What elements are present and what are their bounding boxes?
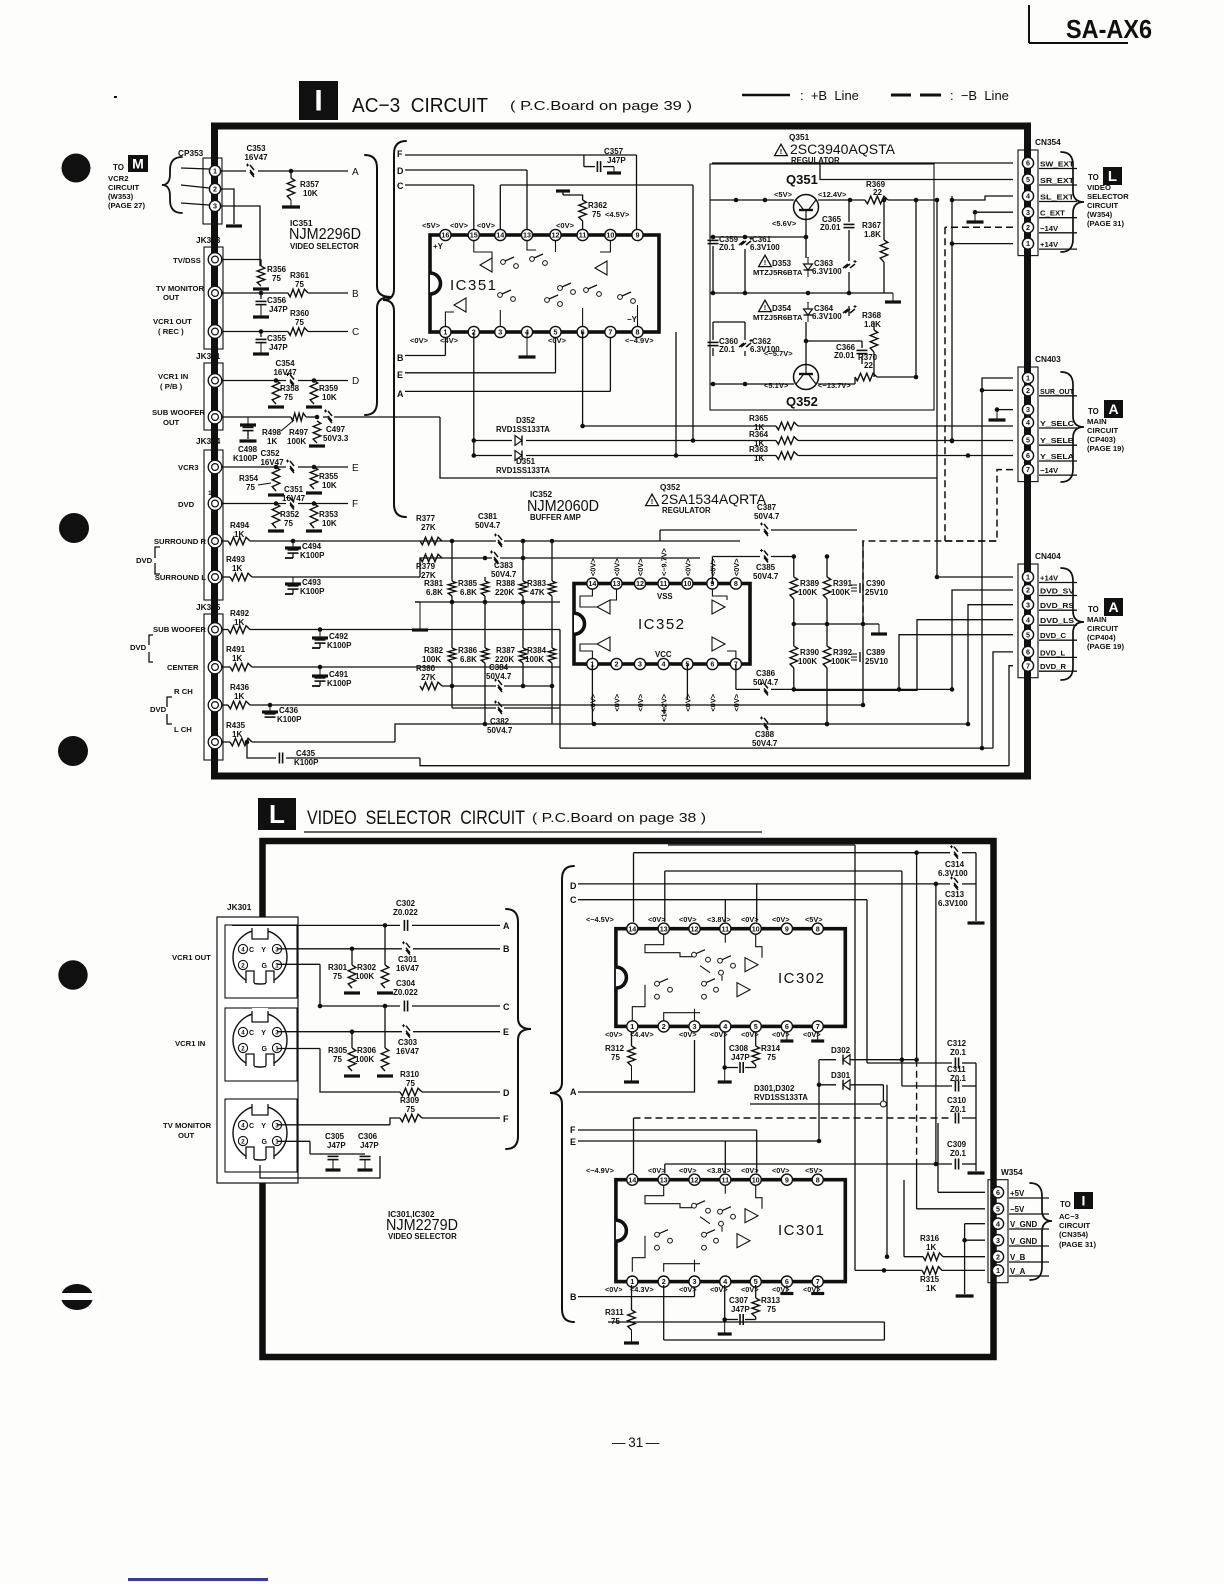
svg-text:F: F [503,1114,509,1124]
svg-text:R367: R367 [862,221,882,230]
svg-text:A: A [570,1087,577,1097]
resistor R305 [348,1048,356,1071]
ground [817,1032,819,1041]
IC352 internals [597,600,610,614]
svg-text:R492: R492 [230,609,250,618]
svg-text:9: 9 [636,231,640,240]
wire A row [260,925,297,930]
svg-text:F: F [570,1125,576,1135]
ground [892,293,894,302]
svg-text:2: 2 [213,185,217,194]
binding hole [58,960,87,989]
svg-text:<−4.9V>: <−4.9V> [586,1166,614,1175]
svg-text:<0V>: <0V> [741,1166,759,1175]
svg-text:Y_SELB: Y_SELB [1040,436,1075,445]
wire pin outputs [591,664,593,724]
svg-text:(CN354): (CN354) [1059,1230,1088,1239]
wire C388 row [594,723,760,725]
svg-text:7: 7 [1026,465,1030,474]
resistor R360 [288,328,308,336]
svg-text:10K: 10K [322,481,337,490]
ground [878,624,880,634]
svg-text:Q352: Q352 [660,483,681,492]
svg-text:R380: R380 [416,664,436,673]
wire SW_EXT [712,162,1013,164]
svg-text:1: 1 [1026,374,1030,383]
svg-text:<5V>: <5V> [805,915,823,924]
resistor R491 [222,666,230,668]
svg-text:12: 12 [552,231,560,240]
svg-text:C: C [249,947,254,954]
svg-text:Y: Y [261,1030,266,1037]
svg-text:C435: C435 [296,749,316,758]
wire pin2 down [473,332,475,441]
svg-text:3: 3 [498,328,502,337]
wire rail2 [710,236,806,238]
wire C_EXT [975,211,1013,213]
svg-text:2: 2 [662,1277,666,1286]
svg-text:SUB WOOFER: SUB WOOFER [153,625,206,634]
svg-text:100K: 100K [287,437,306,446]
svg-text:R365: R365 [749,414,769,423]
svg-text:11: 11 [721,1175,729,1184]
svg-text:JK301: JK301 [227,903,252,912]
svg-text:+14V: +14V [1040,574,1059,583]
capacitor C362 [739,339,753,347]
op-amp U IC351 body [430,235,659,332]
ground [309,444,325,447]
svg-text:27K: 27K [421,673,436,682]
svg-text:2: 2 [241,1139,245,1146]
resistor R492 [222,629,228,631]
svg-text:14: 14 [628,924,636,933]
svg-text:R314: R314 [761,1044,781,1053]
svg-text:<4.4V>: <4.4V> [630,1030,654,1039]
svg-text:2: 2 [241,1046,245,1053]
svg-text:TV MONITOR: TV MONITOR [163,1121,212,1130]
svg-text:4: 4 [1026,615,1030,624]
svg-text:(W353): (W353) [108,192,134,201]
svg-text:VCR2: VCR2 [108,174,129,183]
svg-text:75: 75 [611,1053,620,1062]
svg-text:14: 14 [496,231,504,240]
svg-text:R384: R384 [527,646,547,655]
resistor R306 [381,1048,389,1071]
svg-text:1K: 1K [926,1243,936,1252]
svg-text:SUR_OUT: SUR_OUT [1040,387,1074,396]
svg-text:TV/DSS: TV/DSS [173,256,201,265]
svg-text:K100P: K100P [327,641,352,650]
wire A line [405,390,610,392]
svg-text:F: F [397,149,403,159]
svg-text:Y_SELA: Y_SELA [1040,452,1075,461]
capacitor C355 [260,332,262,338]
wire D to IC302 [578,883,950,885]
svg-text:75: 75 [272,274,281,283]
svg-text:<0V>: <0V> [679,1166,697,1175]
svg-text:75: 75 [767,1053,776,1062]
wire D row [277,1048,320,1050]
svg-text:MTZJ5R6BTA: MTZJ5R6BTA [753,313,803,322]
svg-text:D351: D351 [516,457,536,466]
svg-text:<−4.9V>: <−4.9V> [625,336,654,345]
svg-text:DVD_C: DVD_C [1040,631,1067,640]
svg-text:R355: R355 [319,472,339,481]
ground [268,405,284,408]
svg-text:<0V>: <0V> [679,915,697,924]
svg-text:(PAGE 31): (PAGE 31) [1087,219,1124,228]
ground [306,529,322,532]
svg-text:16V47: 16V47 [396,964,420,973]
ground [260,305,262,317]
regulator box [710,164,934,410]
svg-text:SL_EXT: SL_EXT [1040,193,1074,202]
svg-text:Z0.1: Z0.1 [950,1048,967,1057]
svg-text:VCR1 IN: VCR1 IN [175,1039,206,1048]
resistor R357 [290,171,292,178]
svg-text:1K: 1K [234,692,244,701]
svg-text:R360: R360 [290,309,310,318]
resistor R387 [519,648,527,663]
svg-text:C310: C310 [947,1096,967,1105]
wire C line [222,331,288,333]
svg-text:R368: R368 [862,311,882,320]
svg-text:C497: C497 [326,425,346,434]
svg-text:<−4.5V>: <−4.5V> [586,915,614,924]
brace right [383,141,406,517]
wire C row [320,1005,400,1007]
wire DVD_LS [794,620,1013,691]
svg-text:C: C [352,327,359,338]
diode D351 [515,451,522,461]
svg-text:L: L [269,799,285,829]
svg-text:CENTER: CENTER [167,663,199,672]
svg-text:6.3V100: 6.3V100 [938,869,968,878]
wire A line [221,170,246,172]
svg-text:3: 3 [1026,405,1030,414]
svg-text:4: 4 [241,1030,245,1037]
svg-text:<0V>: <0V> [477,221,496,230]
svg-text:J47P: J47P [607,156,626,165]
svg-text:R310: R310 [400,1070,420,1079]
svg-text:C356: C356 [267,296,287,305]
jack TV/DSS [208,253,222,267]
wire Y_SELB [474,440,512,442]
svg-text:<0V>: <0V> [636,558,645,576]
svg-text:!: ! [780,147,783,156]
capacitor C497 [324,410,332,424]
svg-text:<0V>: <0V> [548,336,567,345]
diode D352 [515,436,522,446]
wire CN403 pin3 ground [997,409,1013,411]
jack SUB WOOFER [208,623,222,637]
svg-text:10: 10 [752,1175,760,1184]
svg-text:1K: 1K [232,564,242,573]
svg-text:CIRCUIT: CIRCUIT [108,183,139,192]
svg-text:Y_SELC: Y_SELC [1040,419,1075,428]
svg-text:IC351: IC351 [450,277,498,294]
svg-text:TO: TO [113,163,124,172]
resistor R435 [222,741,230,743]
svg-text:E: E [570,1137,576,1147]
svg-text:C355: C355 [267,334,287,343]
capacitor C386 [760,682,768,696]
svg-text:5: 5 [996,1204,1000,1213]
svg-text:<0V>: <0V> [605,1030,623,1039]
svg-text:R316: R316 [920,1234,940,1243]
resistor R359 [310,381,318,405]
svg-text:R390: R390 [800,648,820,657]
wire [181,168,209,169]
svg-text:22: 22 [873,188,882,197]
svg-text:<0V>: <0V> [679,1030,697,1039]
svg-text:5: 5 [1026,435,1030,444]
resistor R302 [381,965,389,988]
wire DVD_C [899,635,1013,690]
svg-text:<−9.7V>: <−9.7V> [660,548,669,576]
svg-text:1: 1 [1026,239,1030,248]
svg-text:R381: R381 [424,579,444,588]
wire W1 surround R [250,540,496,542]
capacitor C493 [292,577,294,584]
legend -B line [891,94,911,97]
svg-text:R491: R491 [226,645,246,654]
svg-text:2: 2 [1026,586,1030,595]
resistor R369 [865,196,888,204]
svg-text:B: B [352,289,359,300]
svg-text:75: 75 [295,318,304,327]
resistor R436 [222,704,228,706]
svg-text:V_B: V_B [1010,1253,1026,1262]
wire DVD_R [1009,666,1013,766]
svg-text:R435: R435 [226,721,246,730]
brace CN404 [1061,568,1084,680]
svg-text:1: 1 [213,167,217,176]
svg-text:CIRCUIT: CIRCUIT [1059,1221,1090,1230]
svg-text:K100P: K100P [300,551,325,560]
svg-text:<0V>: <0V> [588,558,597,576]
ground [268,529,284,532]
svg-text:2: 2 [1026,386,1030,395]
wire C386 row [735,664,737,689]
ground [786,1285,788,1294]
resistor R354 [272,467,280,491]
jack R CH [208,698,222,712]
wire mid gnd rail [415,601,560,603]
svg-text:W354: W354 [1001,1168,1023,1177]
svg-text:50V4.7: 50V4.7 [491,570,517,579]
svg-text:C389: C389 [866,648,886,657]
svg-text:VCR1 OUT: VCR1 OUT [172,953,211,962]
svg-text:R311: R311 [605,1308,624,1317]
resistor R353 [310,504,318,529]
wire DVD_SV [952,590,1013,689]
svg-text:K100P: K100P [327,679,352,688]
wire pin3 down [473,441,475,456]
wire E to IC301 [578,1140,819,1142]
svg-text:1K: 1K [232,654,242,663]
svg-text:6.3V100: 6.3V100 [938,899,968,908]
svg-text:IC352: IC352 [638,616,686,633]
svg-text:27K: 27K [421,523,436,532]
svg-text:: +B Line: : +B Line [800,88,859,103]
resistor R377 [420,537,442,545]
svg-text:OUT: OUT [163,293,180,302]
svg-text:10K: 10K [322,393,337,402]
svg-text:R497: R497 [289,428,309,437]
svg-text:C494: C494 [302,542,322,551]
svg-text:1: 1 [275,1139,279,1146]
model number box SA-AX6 [1028,5,1030,43]
svg-text:R302: R302 [357,963,377,972]
svg-text:−5V: −5V [1010,1205,1025,1214]
svg-text:3: 3 [275,947,279,954]
svg-text:16V47: 16V47 [260,458,284,467]
svg-text:1K: 1K [232,730,242,739]
svg-text:VIDEO: VIDEO [1087,183,1111,192]
svg-text:C308: C308 [729,1044,749,1053]
svg-text:IC302: IC302 [778,970,826,987]
capacitor C303 [402,1024,410,1038]
svg-text:VIDEO SELECTOR: VIDEO SELECTOR [290,242,359,251]
svg-text:<0V>: <0V> [636,694,645,712]
wire pin2 ground [221,189,234,224]
svg-text:4: 4 [996,1219,1000,1228]
svg-text:G: G [262,1046,268,1053]
wire D line [405,169,527,171]
svg-text:Z0.01: Z0.01 [834,351,855,360]
jack VCR1 IN [208,374,222,388]
ground [344,991,360,994]
svg-text:2SA1534AQRTA: 2SA1534AQRTA [661,492,766,507]
ground [377,1074,393,1077]
svg-text:75: 75 [284,519,293,528]
wire W5 R CH [250,704,592,706]
wire -14V CN403 [863,470,1013,624]
svg-text:R313: R313 [761,1296,781,1305]
svg-text:C436: C436 [279,706,299,715]
svg-text:C382: C382 [490,717,510,726]
svg-text:2: 2 [241,963,245,970]
svg-text:(PAGE 19): (PAGE 19) [1087,642,1124,651]
svg-text:3: 3 [213,202,217,211]
svg-text:D354: D354 [772,304,792,313]
svg-text:25V10: 25V10 [865,588,889,597]
svg-text:CIRCUIT: CIRCUIT [1087,201,1118,210]
ground [344,1074,360,1077]
svg-text:D: D [397,166,404,176]
jack VCR1 OUT [208,325,222,339]
capacitor C492 [319,630,321,639]
jack SUB WOOFER OUT [208,410,222,424]
svg-text:<0V>: <0V> [613,694,622,712]
svg-text:4: 4 [241,947,245,954]
footer blue mark [128,1578,268,1581]
resistor R493 [222,576,230,578]
binding hole (half) [61,1284,93,1310]
svg-text:B: B [570,1292,577,1302]
svg-text:(CP403): (CP403) [1087,435,1116,444]
capacitor C491 [319,667,321,676]
svg-text:<4V>: <4V> [440,336,459,345]
wire jack column [260,1156,380,1178]
svg-text:C304: C304 [396,979,416,988]
svg-text:E: E [397,370,403,380]
svg-text:CN354: CN354 [1035,138,1061,147]
svg-text:<0V>: <0V> [772,915,790,924]
svg-text:DVD_RS: DVD_RS [1040,601,1074,610]
svg-text:R301: R301 [328,963,348,972]
svg-text:DVD_SV: DVD_SV [1040,587,1075,596]
brace W354 [1030,1183,1052,1280]
capacitor C494 [292,541,294,548]
ground [786,1032,788,1041]
svg-text:R312: R312 [605,1044,625,1053]
svg-text:C: C [570,895,577,905]
svg-text:100K: 100K [831,657,850,666]
svg-text:75: 75 [284,393,293,402]
wire C to IC302 [578,899,867,901]
brace CN354 [1061,152,1084,252]
resistor R391 [823,577,831,599]
svg-text:J47P: J47P [731,1053,750,1062]
svg-text:10: 10 [683,579,691,588]
svg-text:<0V>: <0V> [683,558,692,576]
svg-text:75: 75 [333,1055,342,1064]
wire B line [405,355,445,357]
svg-text:C313: C313 [945,890,965,899]
op-amp U IC302 body [616,929,845,1027]
svg-text:1K: 1K [754,454,764,463]
svg-text:REGULATOR: REGULATOR [662,506,711,515]
svg-text:D: D [352,376,359,387]
svg-text:<0V>: <0V> [679,1285,697,1294]
svg-text:A: A [503,921,510,931]
svg-text:C: C [503,1002,510,1012]
svg-text:C493: C493 [302,578,322,587]
svg-text:G: G [262,963,268,970]
resistor R386 [481,648,489,663]
svg-text:R CH: R CH [174,687,193,696]
diode D354 zener [759,300,772,311]
svg-text:C312: C312 [947,1039,967,1048]
svg-text:DVD: DVD [136,556,153,565]
capacitor C364 [843,305,857,313]
svg-text:C301: C301 [398,955,418,964]
svg-text:CN403: CN403 [1035,355,1061,364]
svg-text:R306: R306 [357,1046,377,1055]
brace to CP353 [162,157,182,213]
svg-text:!: ! [764,303,767,312]
svg-text:Y: Y [261,947,266,954]
svg-text:R382: R382 [424,646,444,655]
wire W6 L CH [252,741,395,743]
svg-text:10K: 10K [322,519,337,528]
svg-text:8: 8 [816,924,820,933]
resistor R388 [519,581,527,596]
svg-text:1: 1 [208,490,212,497]
svg-text:(W354): (W354) [1087,210,1113,219]
svg-text:TO: TO [1088,605,1099,614]
capacitor C390 [851,583,863,593]
svg-text:<0V>: <0V> [732,558,741,576]
svg-text:C311: C311 [947,1065,966,1074]
resistor R390 [790,646,798,668]
svg-text:C: C [397,181,404,191]
wire E line [405,372,556,374]
capacitor C363 [843,260,857,268]
resistor R356 [222,259,261,261]
